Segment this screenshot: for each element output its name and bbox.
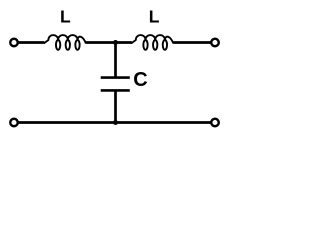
wire top-middle segment (86, 41, 132, 44)
wire top-right segment (173, 41, 211, 44)
node junction bottom (113, 120, 118, 125)
wire bottom (18, 121, 210, 124)
wire top-left segment (18, 41, 44, 44)
capacitor C bottom plate (101, 89, 130, 92)
terminal top-right (211, 39, 219, 47)
wire capacitor upper stub (114, 43, 117, 78)
terminal bottom-right (211, 119, 219, 127)
inductor L1 (44, 35, 86, 50)
node junction top (113, 40, 118, 45)
wire capacitor lower stub (114, 90, 117, 122)
svg-text:C: C (133, 69, 147, 91)
capacitor C top plate (101, 76, 130, 79)
terminal bottom-left (10, 119, 18, 127)
svg-text:L: L (60, 7, 71, 27)
svg-text:L: L (149, 7, 160, 27)
terminal top-left (10, 39, 18, 47)
inductor L2 (131, 35, 173, 50)
